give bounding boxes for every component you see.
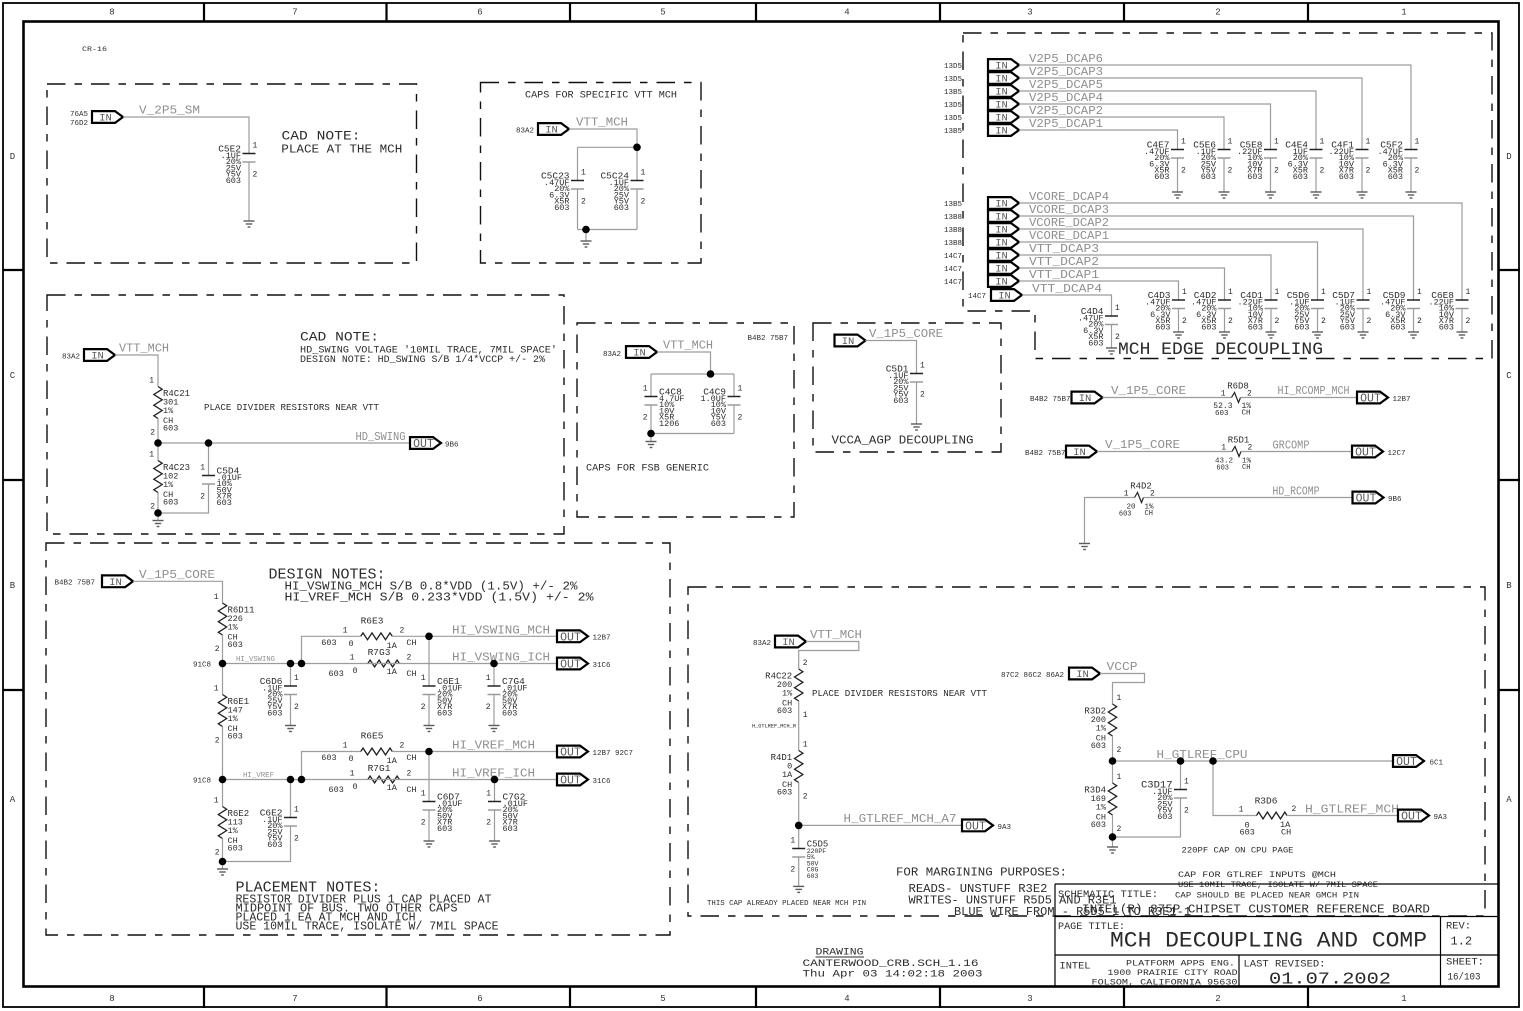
capacitor C4E4 [1285,138,1324,183]
svg-text:IN: IN [995,277,1008,289]
wire [1287,815,1398,817]
capacitor C5D4 [200,464,242,509]
wire [223,826,291,862]
svg-text:2: 2 [738,414,743,423]
capacitor C6E1 [421,674,463,719]
svg-text:1: 1 [1117,773,1122,782]
svg-text:GRCOMP: GRCOMP [1273,439,1310,453]
wire [157,443,159,461]
wire [651,433,734,435]
svg-text:603: 603 [1247,172,1262,182]
junction [287,776,295,784]
wire [290,695,292,726]
svg-text:2: 2 [1466,317,1471,326]
wire [223,779,302,781]
ground [489,841,500,847]
svg-text:IN: IN [91,351,104,363]
ground [1311,192,1322,198]
svg-text:IN: IN [842,336,855,348]
port IN VCORE_DCAP1 [988,236,1019,250]
svg-text:83A2: 83A2 [753,640,771,648]
wire [392,751,557,753]
capacitor C5C23 [541,169,586,214]
svg-text:2: 2 [486,819,491,828]
wire [636,189,638,230]
svg-text:9A3: 9A3 [998,824,1012,832]
ground [581,241,592,247]
junction [298,660,306,668]
wire [1361,158,1363,192]
port IN V_1P5_CORE [1066,446,1097,460]
note box V_2P5_SM cad note [47,84,417,263]
wire [1413,309,1415,333]
wire [302,636,361,663]
port OUT HD_RCOMP [1353,492,1384,506]
ground [217,869,228,875]
svg-text:603: 603 [1216,464,1229,472]
svg-text:2: 2 [1292,805,1297,814]
svg-text:603: 603 [1293,172,1308,182]
svg-text:R3D6: R3D6 [1255,796,1278,807]
wire [1019,216,1414,300]
svg-text:6C1: 6C1 [1430,760,1444,768]
ground [1457,332,1468,338]
svg-text:14C7: 14C7 [968,293,986,301]
resistor R6D11 [214,593,255,654]
svg-text:603: 603 [1157,812,1172,822]
capacitor C4C9 [700,385,742,430]
wire [1177,158,1179,192]
resistor R4C21 [149,377,190,438]
svg-text:SCHEMATIC TITLE:: SCHEMATIC TITLE: [1058,889,1158,901]
wire [1019,117,1224,150]
svg-text:IN: IN [995,251,1008,263]
svg-text:R7G3: R7G3 [368,647,391,658]
capacitor C5D7 [1332,288,1371,333]
svg-text:D: D [1506,152,1511,162]
svg-text:OUT: OUT [560,631,581,644]
svg-text:1: 1 [1417,288,1422,297]
svg-text:H_GTLREF_MCH_A7: H_GTLREF_MCH_A7 [844,812,957,826]
svg-text:1: 1 [581,169,586,178]
port IN V2P5_DCAP4 [988,98,1019,112]
port IN V2P5_DCAP1 [988,124,1019,138]
svg-text:1: 1 [253,142,258,151]
svg-text:603: 603 [1091,741,1106,751]
svg-text:1A: 1A [387,783,398,793]
column labels top [109,8,1406,18]
wire [1270,158,1272,192]
svg-text:CAPS FOR SPECIFIC VTT MCH: CAPS FOR SPECIFIC VTT MCH [525,91,677,102]
svg-text:603: 603 [217,498,232,508]
junction [298,776,306,784]
wire [650,374,652,397]
row ticks right [1499,270,1521,690]
svg-text:603: 603 [614,203,629,213]
wire [1019,65,1411,150]
svg-text:IN: IN [995,225,1008,237]
svg-text:1: 1 [1466,288,1471,297]
svg-text:B: B [10,581,16,591]
svg-text:13B8: 13B8 [944,214,962,222]
svg-text:13B5: 13B5 [944,128,963,136]
svg-text:HI_VREF_MCH S/B 0.233*VDD (1: HI_VREF_MCH S/B 0.233*VDD (1.5V) +/- 2% [285,592,594,605]
wire [1241,451,1352,453]
svg-text:1: 1 [1221,390,1226,399]
junction [491,776,499,784]
svg-text:D: D [10,152,15,162]
svg-text:A: A [10,795,16,805]
svg-text:2: 2 [150,429,155,438]
wire [798,825,800,848]
wire [1019,78,1362,150]
svg-text:31C6: 31C6 [593,778,612,786]
wire [1112,837,1114,847]
title block text [1058,889,1484,990]
port IN VTT_MCH [626,346,657,360]
capacitor C4C8 [643,385,685,430]
svg-text:IN: IN [995,87,1008,99]
svg-text:1: 1 [790,837,795,846]
svg-text:603: 603 [1154,172,1169,182]
svg-text:R6E5: R6E5 [361,731,384,742]
svg-text:1: 1 [641,169,646,178]
ground [424,726,435,732]
svg-text:V2P5_DCAP4: V2P5_DCAP4 [1029,91,1103,105]
wire [1224,309,1226,333]
svg-text:13B5: 13B5 [944,89,963,97]
wire [577,189,579,230]
wire [733,405,735,434]
resistor R7G3 [329,647,417,679]
wire [290,780,292,818]
svg-text:CAD NOTE:: CAD NOTE: [300,330,379,345]
wire [1112,815,1114,837]
svg-text:2: 2 [581,198,586,207]
column ticks bottom [204,987,1308,1009]
wire [1022,295,1112,316]
svg-text:1: 1 [1124,490,1129,499]
svg-text:VTT_DCAP1: VTT_DCAP1 [1029,268,1099,282]
svg-text:3: 3 [1027,994,1032,1004]
wire [577,147,579,180]
svg-text:2: 2 [421,819,426,828]
junction [425,633,433,641]
ground [424,841,435,847]
capacitor C4F1 [1328,138,1370,183]
ground [1312,332,1323,338]
svg-text:CAP SHOULD BE PLACED NEAR GMCH: CAP SHOULD BE PLACED NEAR GMCH PIN [1175,891,1359,901]
svg-text:1: 1 [1274,138,1279,147]
svg-text:603: 603 [1215,410,1229,418]
wire [1113,798,1181,837]
svg-text:1: 1 [1366,138,1371,147]
svg-text:HI_VSWING: HI_VSWING [236,656,275,664]
wire [1103,397,1232,399]
svg-text:HI_VREF: HI_VREF [243,772,274,780]
wire [222,635,224,664]
svg-text:MCH DECOUPLING AND COMP: MCH DECOUPLING AND COMP [1110,929,1427,954]
svg-text:FOR MARGINING PURPOSES:: FOR MARGINING PURPOSES: [896,866,1067,880]
svg-text:INTEL(R) 875P CHIPSET CUSTOMER: INTEL(R) 875P CHIPSET CUSTOMER REFERENCE… [1082,903,1430,917]
svg-text:IN: IN [545,125,558,137]
svg-text:6: 6 [477,994,482,1004]
capacitor C5D1 [886,362,925,407]
svg-text:1: 1 [1415,138,1420,147]
wire [222,727,224,780]
svg-text:1: 1 [149,451,154,460]
svg-text:2: 2 [400,627,405,636]
wire [208,443,210,476]
svg-text:R4D2: R4D2 [1130,482,1152,492]
svg-text:IN: IN [633,348,646,360]
svg-text:2: 2 [1274,167,1279,176]
svg-text:9B6: 9B6 [1388,496,1402,504]
wire [290,664,292,687]
svg-text:603: 603 [1388,172,1403,182]
svg-text:4: 4 [844,8,849,18]
svg-text:14C7: 14C7 [944,253,962,261]
svg-text:H_GTLREF_CPU: H_GTLREF_CPU [1157,748,1248,762]
svg-text:2: 2 [407,654,412,663]
wire [428,695,430,726]
svg-text:8: 8 [109,8,114,18]
wire [115,355,158,387]
svg-text:603: 603 [329,785,344,795]
port OUT HI_VSWING_MCH [557,630,588,644]
junction [707,370,715,378]
svg-text:VTT_MCH: VTT_MCH [810,628,862,642]
svg-text:REV:: REV: [1446,921,1471,933]
svg-text:2: 2 [150,503,155,512]
svg-text:R6D8: R6D8 [1227,382,1249,392]
svg-text:OUT: OUT [560,659,581,672]
wire [636,147,638,180]
capacitor C5E6 [1193,138,1232,183]
svg-text:2: 2 [1215,8,1220,18]
wire [798,857,800,886]
wire [1019,255,1271,300]
note box caps for specific VTT MCH [481,83,702,264]
capacitor C6E2 [260,806,299,851]
resistor R6D8 [1213,382,1252,418]
ground [1408,332,1419,338]
resistor R6E3 [321,616,416,652]
svg-text:13B5: 13B5 [944,201,963,209]
svg-text:VCCP: VCCP [1107,660,1138,674]
ground [1079,544,1090,550]
placement notes text [236,880,499,934]
wire [1019,229,1363,300]
svg-text:2: 2 [486,703,491,712]
svg-text:R6E3: R6E3 [361,616,384,627]
svg-text:1206: 1206 [659,419,679,429]
wire [133,581,223,603]
svg-text:2: 2 [1215,994,1220,1004]
pin refs 76A5 76D2 [70,111,89,128]
capacitor C4E7 [1144,138,1186,183]
svg-text:2: 2 [1228,317,1233,326]
svg-text:2: 2 [803,659,808,668]
ground [1106,348,1117,354]
ground [1265,192,1276,198]
svg-text:VCORE_DCAP2: VCORE_DCAP2 [1029,216,1109,230]
port IN VTT_DCAP2 [988,262,1019,276]
svg-text:220PF CAP ON CPU PAGE: 220PF CAP ON CPU PAGE [1182,846,1294,856]
design notes text [269,567,594,605]
port IN V_1P5_CORE [1072,392,1103,406]
wire [302,663,558,665]
ground [1219,332,1230,338]
margining notes text [896,866,1191,920]
svg-text:603: 603 [807,873,819,880]
svg-text:IN: IN [995,74,1008,86]
svg-text:IN: IN [1073,447,1086,459]
svg-text:603: 603 [163,424,178,434]
wire [1111,325,1113,349]
resistor R7G1 [329,763,417,795]
capacitor C4D4 [1078,304,1120,349]
svg-text:91C8: 91C8 [193,662,211,670]
svg-text:0: 0 [349,754,354,764]
port OUT H_GTLREF_CPU [1393,755,1424,769]
wire [650,405,652,434]
wire [799,824,962,826]
svg-text:PLACE DIVIDER RESISTORS NEAR V: PLACE DIVIDER RESISTORS NEAR VTT [812,688,987,699]
port IN VTT_MCH [775,636,806,650]
svg-text:2: 2 [215,645,220,654]
svg-text:2: 2 [643,414,648,423]
svg-text:V_1P5_CORE: V_1P5_CORE [869,327,943,341]
svg-text:603: 603 [321,638,336,648]
svg-text:V_2P5_SM: V_2P5_SM [139,104,200,118]
wire [223,663,302,665]
port OUT H_GTLREF_MCH_A7 [962,820,993,834]
svg-text:12B7: 12B7 [593,635,611,643]
junction node H_GTLREF_CPU [1109,757,1117,765]
svg-text:VCCA_AGP DECOUPLING: VCCA_AGP DECOUPLING [832,434,974,448]
svg-text:7: 7 [292,994,297,1004]
wire [585,230,587,242]
svg-text:VTT_MCH: VTT_MCH [119,342,169,356]
svg-text:HI_VSWING_MCH: HI_VSWING_MCH [452,624,550,638]
svg-text:1: 1 [1184,778,1189,787]
wire [1085,498,1135,544]
svg-text:1: 1 [214,797,219,806]
svg-text:2: 2 [1417,317,1422,326]
svg-text:1: 1 [421,790,426,799]
capacitor C5C24 [600,169,645,214]
svg-text:CAPS FOR FSB GENERIC: CAPS FOR FSB GENERIC [586,464,709,475]
junction [490,660,498,668]
capacitor C5E8 [1237,138,1279,183]
svg-text:2: 2 [215,849,220,858]
note box caps for FSB generic [577,323,794,517]
svg-text:1: 1 [1367,288,1372,297]
svg-text:IN: IN [99,113,112,125]
svg-text:Thu Apr 03 14:02:18 2003: Thu Apr 03 14:02:18 2003 [803,969,983,981]
svg-text:HI_RCOMP_MCH: HI_RCOMP_MCH [1278,384,1350,398]
wire [1112,761,1114,783]
svg-text:C: C [1506,371,1512,381]
capacitor C6D6 [260,674,299,719]
svg-text:2: 2 [407,770,412,779]
wire [222,839,224,862]
svg-text:IN: IN [995,61,1008,73]
svg-text:603: 603 [1248,323,1263,333]
gtlref cap notes text [1175,870,1378,901]
port IN VTT_DCAP4 [991,289,1022,303]
svg-text:V2P5_DCAP5: V2P5_DCAP5 [1029,78,1103,92]
svg-text:CH: CH [1242,464,1250,472]
svg-text:IN: IN [995,264,1008,276]
svg-text:603: 603 [1201,172,1216,182]
svg-text:A: A [1506,795,1512,805]
svg-text:1: 1 [1321,288,1326,297]
svg-text:V2P5_DCAP1: V2P5_DCAP1 [1029,117,1103,131]
ground [1266,332,1277,338]
port IN VCORE_DCAP2 [988,223,1019,237]
cad note text [300,330,557,366]
svg-text:1: 1 [421,674,426,683]
svg-text:IN: IN [782,637,795,649]
svg-text:9B6: 9B6 [445,442,459,450]
resistor R6E1 [214,685,249,746]
svg-text:603: 603 [893,396,908,406]
ground [911,424,922,430]
wire [157,419,159,444]
capacitor C7G2 [486,790,528,835]
svg-text:THIS CAP ALREADY PLACED NEAR M: THIS CAP ALREADY PLACED NEAR MCH PIN [707,900,866,908]
port IN V2P5_DCAP2 [988,111,1019,125]
svg-text:1: 1 [1221,444,1226,453]
wire [1019,281,1179,300]
svg-text:VCORE_DCAP3: VCORE_DCAP3 [1029,203,1109,217]
svg-text:603: 603 [1240,828,1255,838]
port IN VTT_MCH [84,349,115,363]
svg-text:1: 1 [803,711,808,720]
svg-text:INTEL: INTEL [1060,961,1091,973]
svg-text:IN: IN [998,291,1011,303]
wire [650,434,652,442]
svg-text:5: 5 [660,8,665,18]
port OUT HI_RCOMP_MCH [1357,392,1388,406]
svg-text:1%: 1% [163,480,174,490]
junction node HI_VSWING [219,660,227,668]
ground [1357,192,1368,198]
resistor R4C22 [765,659,808,720]
ground [1406,192,1417,198]
capacitor C3D17 [1141,778,1189,823]
svg-text:603: 603 [1119,510,1132,518]
svg-text:B: B [1506,581,1512,591]
svg-text:1: 1 [920,362,925,371]
svg-text:7: 7 [292,8,297,18]
svg-text:2: 2 [1117,825,1122,834]
ground [793,886,804,892]
svg-text:0: 0 [349,639,354,649]
ground [285,726,296,732]
svg-text:HI_VSWING_ICH: HI_VSWING_ICH [452,651,550,665]
svg-text:14C7: 14C7 [944,279,962,287]
svg-text:CH: CH [1242,410,1251,418]
wire [222,780,224,807]
port OUT HD_SWING [410,437,441,451]
note box MCH EDGE DECOUPLING [963,33,1492,359]
ground [1358,332,1369,338]
svg-text:1: 1 [294,806,299,815]
svg-text:3: 3 [1027,8,1032,18]
